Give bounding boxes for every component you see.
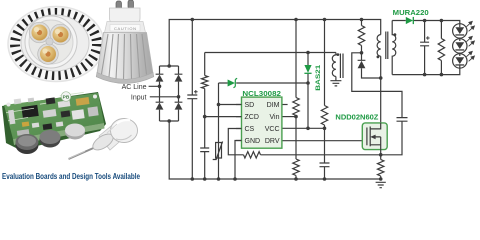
svg-text:MURA220: MURA220 bbox=[393, 10, 429, 17]
diode D6 BAS21 bbox=[304, 64, 322, 91]
transformer core aux bbox=[340, 54, 343, 79]
resistor sense bbox=[378, 160, 384, 180]
wire GND pin bbox=[235, 141, 242, 180]
wire VCC startup branch bbox=[324, 20, 326, 180]
svg-text:CAUTION: CAUTION bbox=[114, 26, 136, 31]
svg-text:NDD02N60Z: NDD02N60Z bbox=[335, 115, 379, 122]
svg-text:SD: SD bbox=[245, 102, 255, 109]
resistor snubber bbox=[358, 20, 364, 53]
svg-text:Input: Input bbox=[131, 94, 147, 101]
svg-text:DIM: DIM bbox=[267, 102, 280, 109]
wire snubber cap branch bbox=[352, 53, 402, 118]
wire Vin startup branch bbox=[295, 20, 297, 180]
LED emission arrows bbox=[466, 21, 474, 61]
svg-text:DRV: DRV bbox=[265, 138, 280, 145]
node AC Line Input label bbox=[122, 84, 147, 102]
LED string LED1 LED2 LED3 bbox=[453, 24, 467, 68]
wire secondary top bbox=[392, 21, 460, 24]
resistor ZCD upper bbox=[202, 76, 208, 89]
transformer secondary bbox=[392, 21, 396, 75]
resistor output bbox=[438, 21, 444, 75]
svg-text:Evaluation Boards and Design T: Evaluation Boards and Design Tools Avail… bbox=[2, 171, 140, 181]
wire DIM stub bbox=[282, 104, 288, 106]
snubber diode triangle bbox=[358, 61, 366, 68]
capacitor bulk electrolytic bbox=[187, 20, 197, 180]
svg-text:GND: GND bbox=[245, 138, 261, 145]
thermistor NTC bbox=[213, 142, 223, 160]
capacitor ZCD filter bbox=[200, 148, 209, 152]
svg-text:VCC: VCC bbox=[265, 126, 280, 133]
wire DRV to gate bbox=[282, 140, 367, 142]
svg-text:AC Line: AC Line bbox=[122, 84, 147, 91]
capacitor VCC bbox=[320, 163, 330, 167]
LED lamp side view photo (GU10) bbox=[96, 0, 154, 83]
transformer core bbox=[386, 32, 388, 60]
resistor Vin lower bbox=[293, 159, 299, 176]
IC U1 NCL30082 bbox=[236, 91, 282, 148]
wire Vin pin bbox=[282, 116, 296, 118]
wire output return bbox=[392, 68, 460, 75]
wire BAS21 branch bbox=[307, 53, 309, 129]
transistor Q1 NDD02N60Z MOSFET bbox=[335, 115, 387, 155]
wire VCC pin bbox=[282, 127, 325, 129]
resistor VCC bbox=[321, 106, 327, 126]
inductor aux winding bbox=[332, 53, 336, 77]
resistor CS bbox=[244, 152, 261, 158]
transformer primary bbox=[377, 35, 381, 57]
svg-text:NCL30082: NCL30082 bbox=[242, 91, 281, 98]
wire sense resistor bbox=[380, 155, 382, 160]
svg-text:BAS21: BAS21 bbox=[315, 64, 322, 91]
ground main bbox=[376, 182, 386, 187]
wire ZCD aux rail bbox=[205, 53, 336, 180]
resistor Vin upper bbox=[293, 98, 299, 116]
phase dots bbox=[377, 56, 380, 59]
wire ZCD pin bbox=[205, 116, 242, 118]
wire CS pin bbox=[228, 129, 243, 155]
diode D5 MURA220 bbox=[393, 10, 429, 24]
plus signs for electrolytics bbox=[194, 36, 430, 93]
bridge rectifier D1-D4 bbox=[160, 66, 179, 121]
wire zener run bbox=[219, 82, 309, 84]
svg-text:PB: PB bbox=[63, 95, 70, 101]
diode snubber bbox=[358, 53, 381, 78]
ground aux bbox=[330, 81, 341, 86]
capacitor snubber bbox=[397, 118, 408, 122]
wire SD node vertical bbox=[218, 83, 220, 179]
zener diode Z1 (SD pin OVP) bbox=[228, 78, 238, 87]
LED lamp front view photo bbox=[8, 7, 104, 82]
svg-text:CS: CS bbox=[245, 126, 255, 133]
wire AC line inputs bbox=[149, 86, 179, 97]
svg-text:Vin: Vin bbox=[270, 114, 280, 121]
wire bottom rail bbox=[169, 121, 381, 179]
wire top rail bbox=[169, 20, 381, 67]
wire SD pin bbox=[219, 104, 242, 106]
wire CS to source node bbox=[261, 121, 403, 155]
capacitor output electrolytic bbox=[420, 21, 429, 75]
bridge diode triangles bbox=[156, 61, 366, 110]
evaluation board photo (green PCB) bbox=[2, 92, 106, 154]
push pin photo bbox=[69, 119, 138, 160]
svg-text:ZCD: ZCD bbox=[245, 114, 259, 121]
